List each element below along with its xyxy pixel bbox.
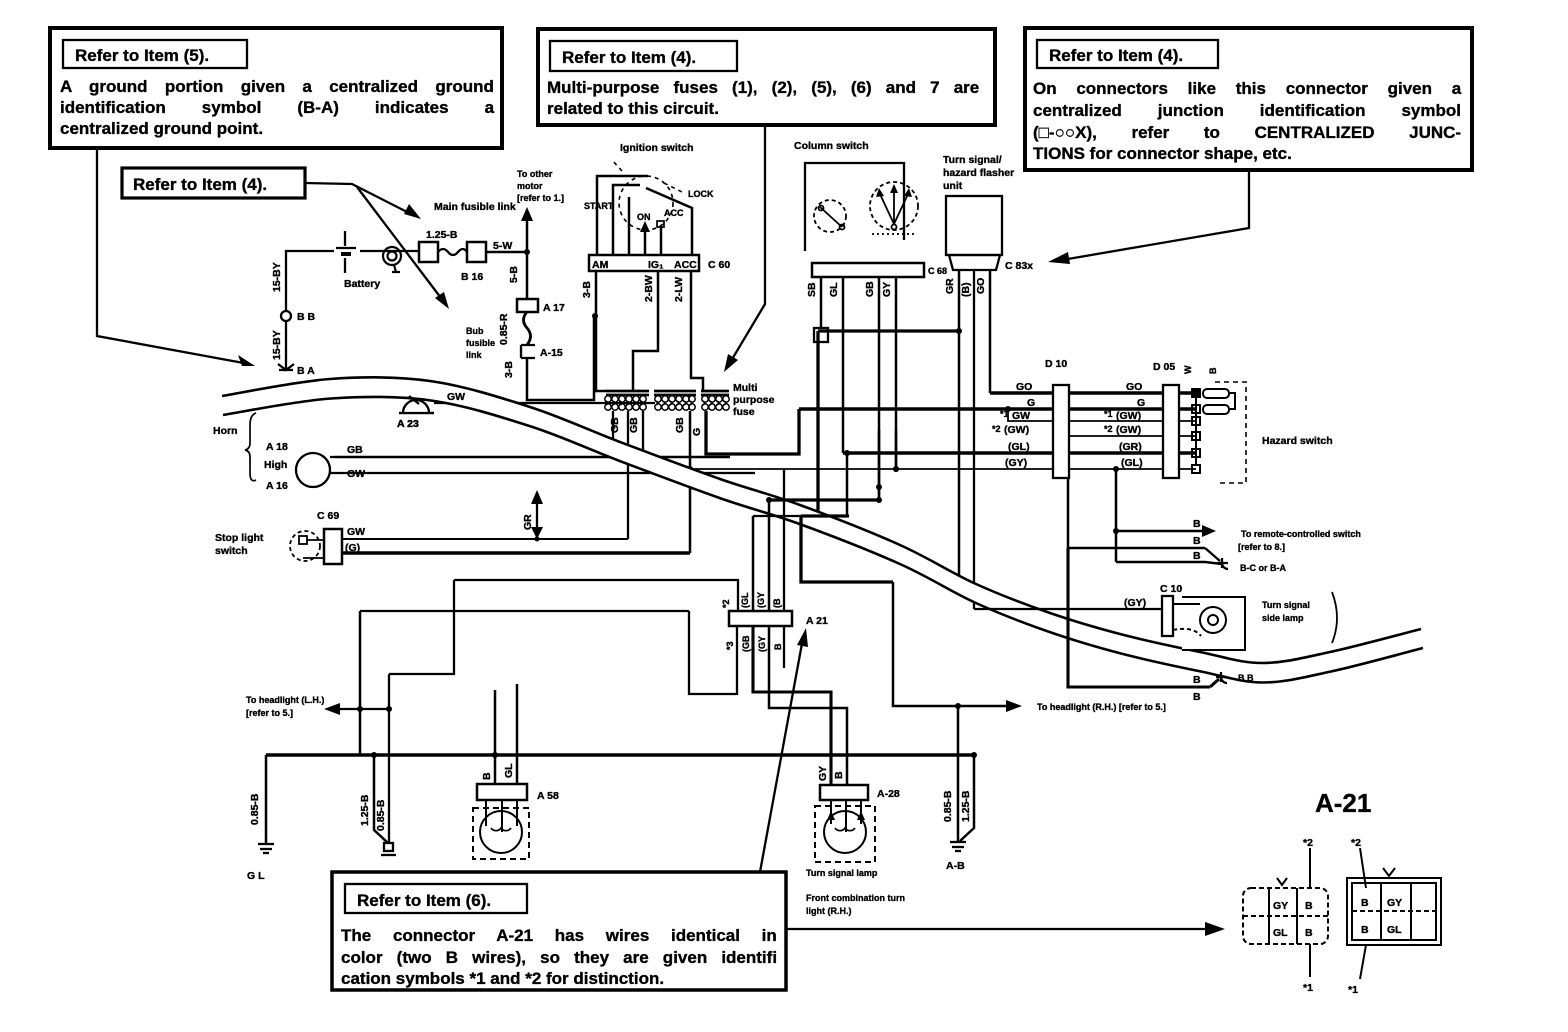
svg-text:GL: GL [1273,927,1288,939]
svg-text:GO: GO [1016,381,1032,393]
svg-text:B: B [1193,518,1201,530]
wire rail down left [389,580,454,674]
svg-text:(□-○○X), refer to CENTRALIZED: (□-○○X), refer to CENTRALIZED JUNC- [1033,123,1461,142]
svg-text:(GW): (GW) [1004,424,1029,436]
svg-text:GB: GB [674,417,686,433]
ignition switch rotary contacts [597,176,692,255]
svg-text:B B: B B [1238,673,1254,683]
sub fusible link squiggle wire [524,312,531,345]
svg-text:side lamp: side lamp [1262,613,1304,623]
node GR on GW line [535,537,540,542]
note box item5 (top-left) [50,28,502,148]
multi-purpose fuse strip bars [606,391,729,395]
ground B-A [278,362,315,377]
wire battery to main fusible link [360,250,419,252]
svg-text:B: B [1305,900,1313,912]
svg-text:(GW): (GW) [1116,424,1141,436]
connector D-05 [1153,361,1179,478]
wire B bottom ground run [1068,548,1219,687]
wire RH headlight feed [893,582,1022,712]
wire A-15 to AM feed [527,318,594,400]
svg-text:D 05: D 05 [1153,361,1175,373]
svg-text:color (two B wires), so they a: color (two B wires), so they are given i… [341,948,777,967]
svg-text:B: B [1193,691,1201,703]
svg-text:GW: GW [347,526,365,538]
svg-text:(GY: (GY [756,592,766,608]
svg-text:0.85-R: 0.85-R [498,313,510,345]
svg-text:B-C or B-A: B-C or B-A [1240,563,1286,573]
wire GW stop light [342,538,628,540]
svg-text:G: G [691,428,703,436]
svg-text:cation symbols *1 and *2 for d: cation symbols *1 and *2 for distinction… [341,969,664,988]
node junction LH [386,706,392,712]
svg-text:W: W [1183,365,1193,374]
svg-text:On connectors like this connec: On connectors like this connector given … [1033,79,1462,98]
terminal box column SB [814,328,828,342]
svg-text:GY: GY [1273,900,1288,912]
wire A-21 pin1 loop [689,611,737,694]
note box item4 (top-middle) [538,29,995,125]
wire pin2 riser [753,515,801,517]
wire 0.85-B left ground [265,755,268,844]
svg-text:To headlight (L.H.): To headlight (L.H.) [246,695,324,705]
svg-text:G L: G L [247,870,265,882]
turn signal flasher unit box [946,196,1002,255]
svg-text:2-LW: 2-LW [673,277,685,302]
svg-text:(GY: (GY [757,636,767,652]
svg-text:B: B [833,771,845,779]
svg-text:TIONS for connector shape, etc: TIONS for connector shape, etc. [1033,144,1292,163]
wire GW horn low [335,472,755,474]
svg-text:Turn signal/: Turn signal/ [943,154,1002,166]
svg-text:Horn: Horn [213,425,238,437]
svg-text:(GB: (GB [741,635,751,652]
fusible link wire squiggle [438,249,467,255]
svg-text:(GR): (GR) [1119,441,1142,453]
A-21 detail left connector [1243,837,1328,994]
svg-text:*3: *3 [725,641,735,650]
wire GL to lamp A-58 [516,684,519,784]
connector A-58 [477,784,559,802]
wire up to other motor [521,207,533,252]
svg-text:0.85-B: 0.85-B [942,790,954,822]
svg-text:*2: *2 [992,424,1001,434]
svg-text:*2: *2 [721,599,731,608]
svg-text:(GL): (GL) [1008,441,1030,453]
wire rail mid left [360,610,689,612]
svg-text:Refer to Item (6).: Refer to Item (6). [357,891,491,910]
svg-text:Bub: Bub [466,326,484,336]
svg-text:ACC: ACC [664,208,684,218]
svg-text:START: START [584,201,614,211]
svg-text:G: G [1137,397,1145,409]
svg-text:*1: *1 [1104,409,1113,419]
column switch dial 2 [870,182,918,234]
svg-text:15-BY: 15-BY [271,330,283,360]
svg-text:C 60: C 60 [708,259,730,271]
svg-text:1.25-B: 1.25-B [359,794,371,826]
svg-text:B: B [1361,924,1369,936]
connector C-83x flasher [949,255,1033,272]
wire pin3 down [768,500,771,611]
wire A-21 pin B stub [783,626,785,668]
svg-text:[refer to 5.]: [refer to 5.] [246,708,293,718]
wire B ground upper [1068,547,1205,550]
wire fuse4 down to G stop line [689,411,692,553]
svg-text:A ground portion given a centr: A ground portion given a centralized gro… [60,77,494,96]
ground B-B (circle splice) [281,311,316,323]
svg-text:Multi-purpose fuses (1), (2),: Multi-purpose fuses (1), (2), (5), (6) a… [547,78,979,97]
svg-text:B: B [1193,674,1201,686]
wire SB column [820,277,823,328]
wire rail to A-21 pin1 [454,580,738,611]
connector D-10 [1045,358,1069,478]
svg-text:1.25-B: 1.25-B [426,229,458,241]
svg-text:GL: GL [828,282,840,297]
svg-text:LOCK: LOCK [688,189,714,199]
svg-text:(GW): (GW) [1116,410,1141,422]
wire GR flasher down [958,270,961,577]
wire GY column lower [895,430,898,469]
svg-text:*1: *1 [1303,982,1313,994]
hazard wire row GO [990,391,1196,395]
svg-text:The connector A-21 has wires i: The connector A-21 has wires identical i… [341,926,777,945]
connector A-21 in circuit [729,611,828,627]
wire down to ground LH [388,674,390,843]
wire B ground lower [1116,562,1222,564]
svg-text:Refer to Item (4).: Refer to Item (4). [1049,46,1183,65]
svg-text:switch: switch [215,545,248,557]
svg-text:To remote-controlled switch: To remote-controlled switch [1241,529,1361,539]
wire GY column [895,277,898,469]
wire labels above A-21 [721,592,782,608]
turn signal side lamp RH [1173,597,1245,650]
svg-text:B: B [481,772,493,780]
svg-text:link: link [466,350,482,360]
svg-text:0.85-B: 0.85-B [249,793,261,825]
wire to headlight LH vertical [359,611,362,755]
svg-text:A 16: A 16 [266,480,288,492]
svg-text:1.25-B: 1.25-B [960,790,972,822]
svg-text:GL: GL [1387,924,1402,936]
svg-text:B: B [1193,550,1201,562]
svg-text:Main fusible link: Main fusible link [434,201,516,213]
svg-text:Ignition switch: Ignition switch [620,142,694,154]
svg-text:[refer to 8.]: [refer to 8.] [1238,542,1285,552]
wire diagonal to ground B-C [1205,548,1220,561]
wire fuse3 down [642,411,644,452]
node junction 879 [876,484,882,490]
svg-text:fuse: fuse [733,406,755,418]
node GB chain right [876,497,882,503]
svg-text:B B: B B [297,311,316,323]
wire labels below A-21 [725,635,783,652]
hazard switch fuse [1203,389,1235,414]
connector C-60 ignition switch [589,255,730,271]
note box item4 (left) [122,168,305,198]
svg-text:GB: GB [628,417,640,433]
svg-text:(GY): (GY) [1124,597,1146,609]
leader arrow from top-right box to connector C-83x [1048,170,1249,264]
node junction 5-W [524,249,530,255]
leader arrow from item6 box to A-21 detail [786,922,1225,936]
svg-text:(G): (G) [345,542,360,554]
ignition switch dashed dial arc [612,160,684,230]
multi-purpose fuse elements [605,396,729,410]
svg-text:(B: (B [772,598,782,608]
node fuse4 GY row tap [687,466,693,472]
label Stop light switch [215,532,264,557]
svg-text:Turn signal lamp: Turn signal lamp [806,868,878,878]
svg-text:GY: GY [1387,897,1402,909]
svg-text:C 83x: C 83x [1005,260,1033,272]
connector C-10 [1160,583,1182,636]
column switch dial 1 [814,200,846,232]
wire fuse5 down jog to G row [706,409,799,454]
main fusible link fuse 1 [419,242,438,262]
svg-text:A 23: A 23 [397,418,419,430]
svg-text:AM: AM [592,259,609,271]
svg-text:fusible: fusible [466,338,495,348]
svg-text:B: B [1361,897,1369,909]
wire riser B pair [1115,531,1118,562]
svg-text:B: B [1193,535,1201,547]
svg-text:High: High [264,459,287,471]
svg-text:15-BY: 15-BY [271,262,283,292]
svg-text:ACC: ACC [674,259,697,271]
wire IG1 down [633,271,658,391]
node GB chain left [766,497,772,503]
leader arrow from item6 box to connector A-21 in circuit [760,628,808,872]
svg-text:light (R.H.): light (R.H.) [806,906,852,916]
wire riser GL to chain [846,453,849,516]
wire heavy feed to flasher [818,329,959,332]
connector C-69 stop light [317,510,342,564]
svg-text:C 10: C 10 [1160,583,1182,595]
hazard wire row G [799,407,1196,411]
wire GY to side lamp [974,608,1162,610]
hazard switch dashed housing [1215,382,1246,483]
ground B-C or B-A [1217,558,1286,573]
wire GB column lower [878,430,881,500]
svg-text:Refer to Item (4).: Refer to Item (4). [562,48,696,67]
svg-text:Refer to Item (4).: Refer to Item (4). [133,175,267,194]
column switch housing [805,163,904,251]
horn high symbol [296,453,335,487]
svg-text:hazard flasher: hazard flasher [943,167,1014,179]
svg-text:A-21: A-21 [1315,788,1371,818]
hazard wire row GY [690,468,1196,470]
svg-text:*2: *2 [1104,424,1113,434]
svg-text:Front combination turn: Front combination turn [806,893,905,903]
wire 1.25-B mid ground [371,752,388,843]
svg-text:[refer to 1.]: [refer to 1.] [517,193,564,203]
svg-text:Battery: Battery [344,278,380,290]
svg-text:A-B: A-B [946,860,965,872]
svg-text:*1: *1 [1000,409,1009,419]
node GR junction [956,328,962,334]
node junction AM feed [592,313,598,319]
svg-text:B: B [1208,367,1218,374]
ground mid [381,843,396,855]
wire riser B from GY row [1113,466,1119,534]
label To remote controlled switch [1238,529,1361,552]
svg-text:*2: *2 [1351,837,1361,849]
wire GB column [878,277,881,500]
label Turn signal hazard flasher unit [943,154,1014,192]
wire ACC down [691,271,703,391]
svg-text:C 68: C 68 [928,266,947,276]
svg-text:related to this circuit.: related to this circuit. [547,99,719,118]
wire down from feed to G row [816,331,819,516]
svg-text:unit: unit [943,180,963,192]
svg-text:(B): (B) [960,282,972,297]
svg-text:A 58: A 58 [537,790,559,802]
svg-text:B: B [773,643,783,650]
horn connector A-23 overlay [397,391,465,430]
svg-text:To other: To other [517,169,553,179]
svg-text:GW: GW [347,468,365,480]
svg-text:A 18: A 18 [266,441,288,453]
front combination light LH [473,800,529,859]
A-21 detail right connector [1347,837,1441,996]
svg-text:IG₁: IG₁ [648,259,663,271]
connector C-68 column switch [812,263,947,277]
svg-text:*2: *2 [1303,837,1313,849]
wire GY to A-28 [753,626,831,785]
wire G stop light heavy [342,551,690,555]
svg-text:G: G [1027,397,1035,409]
svg-text:A-28: A-28 [877,788,900,800]
wire to headlight LH arrow [324,703,389,715]
wire pin4 down [783,469,785,611]
svg-text:SB: SB [806,282,818,297]
note box item4 (top-right) [1025,28,1472,170]
label Sub fusible link [466,326,495,360]
label To headlight LH [246,695,324,718]
svg-text:(GL): (GL) [1121,457,1143,469]
svg-text:GW: GW [447,391,465,403]
wire GR riser arrow [531,490,543,539]
svg-text:5-B: 5-B [508,266,520,283]
svg-text:C 69: C 69 [317,510,339,522]
svg-text:2-BW: 2-BW [643,275,655,302]
svg-text:Multi: Multi [733,382,758,394]
wire pin2 down [752,516,755,611]
wire chain to RH headlight rail [801,516,893,582]
ground G-L [247,844,274,882]
svg-text:A 17: A 17 [543,302,565,314]
leader arrow from top-middle box to multi-purpose fuse [724,125,765,372]
front combination light RH [815,800,875,862]
svg-text:B 16: B 16 [461,271,483,283]
stop light switch symbol [290,531,324,561]
svg-text:Stop light: Stop light [215,532,264,544]
wire GW horn chain heavy [801,514,849,517]
svg-text:3-B: 3-B [581,281,593,298]
wire fuse2 down to GW stop line [627,411,629,539]
wire riser from GL row [1067,478,1070,548]
wire GL column to hazard row [842,277,845,453]
svg-text:centralized ground point.: centralized ground point. [60,119,263,138]
main B rail bottom [266,753,974,757]
leader wire from item5 box to ground B-A [97,148,255,366]
wire B to lamp A-58 [492,690,498,784]
wire B flasher down to side lamp feed [973,270,975,609]
svg-text:GR: GR [944,278,956,294]
wire B to A-28 [769,626,847,785]
svg-text:ON: ON [637,212,651,222]
svg-text:GB: GB [864,281,876,297]
svg-text:Column switch: Column switch [794,140,869,152]
wire labels rows before D-05 [1104,381,1145,469]
svg-text:GO: GO [975,278,987,294]
ground A-B [946,842,966,872]
svg-text:5-W: 5-W [493,240,512,252]
svg-text:GB: GB [609,417,621,433]
battery [336,231,380,290]
svg-text:GW: GW [1012,410,1030,422]
wire fuse1 down [612,411,614,447]
label To other motor [517,169,564,203]
svg-text:Hazard switch: Hazard switch [1262,435,1333,447]
hazard switch contacts [1192,389,1200,473]
note box item6 (bottom) [332,872,786,990]
svg-text:GO: GO [1126,381,1142,393]
svg-text:GY: GY [817,766,829,781]
wire labels rows before D-10 [992,381,1035,469]
wire GO flasher down [989,270,992,393]
wire AM down to fuse strip [596,271,606,391]
vehicle outline band (white road) [222,377,1423,682]
svg-text:(GL: (GL [740,592,750,608]
svg-text:(GY): (GY) [1005,457,1027,469]
hazard wire row GW [1005,406,1196,421]
wire 1.25-B RH ground [960,752,977,841]
svg-text:A 21: A 21 [806,615,828,627]
svg-text:Refer to Item (5).: Refer to Item (5). [75,46,209,65]
svg-text:*1: *1 [1348,984,1358,996]
label turn signal lamp RH [806,868,905,916]
svg-text:D 10: D 10 [1045,358,1067,370]
leader arrows from item4 left box [305,183,449,309]
wire GB chain to A-21 pin3 [769,498,881,501]
connector A-15 [521,345,563,359]
node GY joins GY row [893,466,899,472]
ground B-B right [1216,672,1254,683]
wire 0.85-B RH ground [957,706,960,842]
svg-text:centralized junction identific: centralized junction identification symb… [1033,101,1461,120]
fusible link coil [383,247,401,272]
svg-text:3-B: 3-B [503,361,515,378]
label Turn signal side lamp [1262,600,1310,623]
connector A-28 [820,785,900,800]
wire to ground B-A [285,321,287,362]
wire GB horn [335,456,730,459]
svg-text:GL: GL [503,763,515,778]
brace horn [245,413,256,481]
svg-text:B: B [1305,927,1313,939]
svg-text:GY: GY [881,282,893,297]
svg-text:To headlight (R.H.) [refer to: To headlight (R.H.) [refer to 5.] [1037,702,1166,712]
connector A 17 [517,299,565,314]
node GY row join [893,466,899,472]
label Multi purpose fuse [733,382,775,418]
hazard wire row GL [843,451,1196,455]
svg-text:0.85-B: 0.85-B [375,799,387,831]
wire GW horn [434,402,655,404]
svg-text:motor: motor [517,181,543,191]
